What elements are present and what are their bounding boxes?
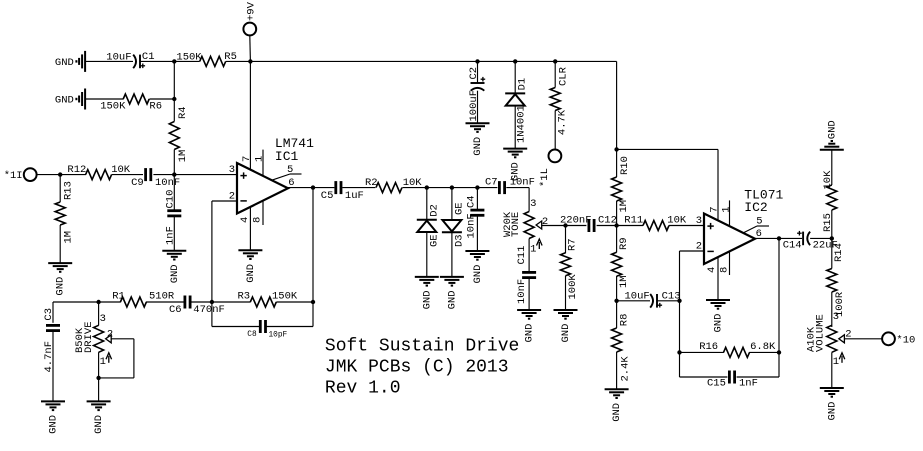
node C12/R10/R9/R11 junction: [614, 223, 618, 227]
resistor R3 150K: [238, 291, 298, 307]
svg-text:10K: 10K: [667, 215, 687, 227]
svg-text:150K: 150K: [176, 51, 202, 63]
ground GND (VOLUME): [820, 388, 844, 421]
ground GND (D1): [503, 149, 527, 182]
svg-text:C4: C4: [465, 195, 477, 208]
svg-text:TONE: TONE: [510, 212, 522, 237]
wire D3 to GND: [451, 232, 453, 277]
svg-text:2: 2: [542, 216, 548, 228]
wire node to R14: [831, 238, 833, 268]
svg-text:5: 5: [756, 215, 762, 227]
wire node to R4: [173, 99, 175, 122]
svg-text:150K: 150K: [100, 101, 126, 113]
svg-text:1: 1: [254, 156, 266, 162]
svg-text:R1: R1: [112, 291, 125, 303]
svg-text:4: 4: [706, 267, 718, 273]
svg-text:10uF: 10uF: [106, 51, 131, 63]
resistor R6 150K: [100, 94, 162, 113]
svg-text:IC1: IC1: [275, 149, 299, 164]
ground GND (C3): [41, 401, 65, 434]
svg-text:GND: GND: [93, 415, 105, 434]
svg-text:7: 7: [241, 156, 253, 162]
svg-text:C6: C6: [169, 304, 182, 316]
svg-text:GND: GND: [245, 264, 257, 283]
pin 5 IC2 stub: [743, 215, 769, 233]
svg-text:470nF: 470nF: [193, 304, 225, 316]
svg-text:R6: R6: [149, 100, 162, 112]
svg-text:3: 3: [696, 215, 702, 227]
wire C15 bottom left: [680, 376, 728, 378]
wire wiper loop down: [133, 339, 135, 378]
wire output down to R16: [778, 238, 780, 352]
svg-text:GND: GND: [472, 265, 484, 284]
wire node to R12: [60, 174, 86, 176]
svg-text:10uF: 10uF: [625, 290, 650, 302]
wire C7 to corner: [506, 187, 529, 189]
wire wiper loop right: [111, 338, 134, 340]
wire rail corner down: [616, 61, 618, 149]
svg-text:R14: R14: [833, 243, 845, 262]
svg-text:100uF: 100uF: [468, 90, 480, 122]
wire node to R16: [680, 351, 724, 353]
wire R11 to IC2 pin3: [669, 225, 704, 227]
wire CLR to terminal: [554, 111, 556, 150]
wire C13 node down to R16: [679, 301, 681, 353]
node D1 junction: [513, 59, 517, 63]
svg-text:*1L: *1L: [539, 168, 551, 187]
node C9/R4/C10/pin3 junction: [172, 172, 176, 176]
wire node to C10: [173, 175, 175, 211]
svg-text:GND: GND: [560, 324, 572, 343]
svg-text:4.7K: 4.7K: [556, 109, 568, 135]
wire +9V rail: [250, 60, 616, 62]
svg-text:510R: 510R: [149, 291, 175, 303]
capacitor C14 22uF: [783, 231, 838, 252]
svg-text:D3: D3: [453, 234, 465, 247]
resistor R4 1M: [169, 106, 189, 162]
svg-text:R4: R4: [177, 106, 189, 119]
wire pot to GND: [831, 352, 833, 388]
svg-text:R9: R9: [618, 237, 630, 250]
resistor R10 1M: [612, 156, 632, 212]
wire C15 left leg: [679, 352, 681, 377]
wire corner down to C3: [52, 302, 54, 323]
svg-text:R13: R13: [63, 181, 75, 200]
wire pot wiper to node: [542, 225, 566, 227]
wire D1 to GND: [514, 106, 516, 149]
ground GND (R6 left): [55, 89, 85, 110]
wire R7 to GND: [565, 276, 567, 310]
wire terminal to node: [37, 174, 61, 176]
svg-text:*1I: *1I: [4, 170, 23, 182]
wire node to R13: [59, 175, 61, 202]
svg-text:GND: GND: [472, 137, 484, 156]
wire node to C12: [566, 225, 587, 227]
svg-text:C15: C15: [707, 378, 726, 390]
wire IC2 pin2: [680, 250, 705, 252]
svg-text:2.4K: 2.4K: [620, 356, 632, 382]
node IC2 output junction: [777, 236, 781, 240]
node wiper/R7/C12 junction: [563, 223, 567, 227]
wire C8 bottom right: [266, 326, 314, 328]
capacitor C9 10nF: [131, 168, 180, 189]
ground GND (D2): [415, 277, 439, 310]
capacitor C2 100uF: [468, 67, 485, 122]
node R16 right junction: [777, 350, 781, 354]
pin 1 IC1 stub: [254, 150, 266, 176]
svg-text:R3: R3: [238, 291, 251, 303]
svg-text:C8: C8: [247, 331, 257, 339]
svg-text:GND: GND: [713, 314, 725, 333]
wire C8 right leg: [312, 302, 314, 327]
wire R6 to node: [149, 98, 174, 100]
capacitor C12 220nF: [560, 215, 617, 232]
wire R10 to C12 node: [616, 201, 618, 226]
svg-text:R11: R11: [624, 215, 643, 227]
svg-text:8: 8: [252, 217, 264, 223]
svg-text:GND: GND: [55, 95, 74, 107]
svg-text:*10: *10: [896, 334, 915, 346]
node CLR junction: [553, 59, 557, 63]
capacitor C8 10pF: [247, 320, 287, 340]
wire R4 to input node: [173, 150, 175, 175]
svg-text:C11: C11: [516, 246, 528, 265]
svg-text:1: 1: [720, 206, 732, 212]
wire node to R7: [565, 226, 567, 254]
capacitor C4 10nF: [465, 195, 484, 238]
resistor R16 6.8K: [699, 341, 776, 358]
capacitor C11 10nF: [516, 246, 536, 304]
ground GND (IC1): [238, 250, 262, 282]
svg-text:5: 5: [287, 164, 293, 176]
wire node to C13: [617, 300, 650, 302]
ground GND (C2): [466, 123, 490, 156]
wire node to R5: [174, 60, 199, 62]
resistor R1 510R: [112, 291, 175, 307]
node input/R13 junction: [58, 172, 62, 176]
wire R13 to GND: [59, 225, 61, 263]
capacitor C5 1uF: [321, 181, 364, 202]
diode D1 1N4001: [505, 78, 529, 143]
wire pin2 down to feedback: [211, 201, 213, 302]
svg-text:1: 1: [530, 244, 536, 256]
diode D2 GE: [417, 204, 441, 247]
svg-text:GE: GE: [453, 202, 465, 215]
svg-text:R10: R10: [619, 156, 631, 175]
svg-text:DRIVE: DRIVE: [83, 321, 95, 353]
ground GND (C10): [162, 251, 186, 283]
pin 5 IC1 stub: [272, 164, 302, 180]
svg-text:3: 3: [833, 311, 839, 323]
svg-text:+9V: +9V: [245, 1, 257, 21]
terminal *10 output: [882, 332, 915, 346]
svg-text:R8: R8: [618, 314, 630, 327]
wire rail node to R10: [616, 149, 618, 177]
wire node to R3: [212, 301, 251, 303]
wire C1 to node: [140, 60, 174, 62]
wire node to R1: [99, 301, 121, 303]
wire C3 to GND: [52, 331, 54, 402]
svg-text:10K: 10K: [822, 170, 834, 190]
svg-text:Soft Sustain Drive: Soft Sustain Drive: [325, 336, 519, 356]
ground GND (C1 left): [55, 51, 85, 72]
wire R15 to node: [831, 210, 833, 238]
wire rail to CLR: [554, 61, 556, 87]
ground GND (DRIVE): [87, 401, 111, 434]
svg-text:C2: C2: [468, 67, 480, 80]
capacitor C13 10uF: [625, 290, 681, 307]
resistor R7 100K: [561, 238, 579, 299]
ground GND (R7): [554, 310, 578, 343]
resistor R12 10K: [67, 164, 130, 180]
capacitor C6 470nF: [169, 296, 225, 317]
wire pot to GND: [98, 378, 100, 402]
svg-text:3: 3: [530, 198, 536, 210]
ground GND (C4): [465, 251, 489, 284]
svg-text:4: 4: [239, 217, 251, 223]
svg-text:1M: 1M: [618, 275, 630, 288]
wire rail to D1: [514, 61, 516, 93]
resistor R11 10K: [624, 215, 687, 231]
svg-text:R16: R16: [699, 341, 718, 353]
node R6/R4 junction: [172, 97, 176, 101]
ground GND (C11): [517, 310, 541, 343]
svg-text:10nF: 10nF: [155, 177, 180, 189]
capacitor C10 1nF: [164, 190, 181, 245]
svg-text:10nF: 10nF: [510, 176, 535, 188]
svg-text:R2: R2: [365, 177, 378, 189]
potentiometer VOLUME A10K: [805, 311, 851, 368]
node R3/C8/output junction: [311, 300, 315, 304]
wire IC1 output: [288, 187, 334, 189]
wire R1 to C6: [146, 301, 185, 303]
wire node to C4: [476, 188, 478, 211]
terminal *1I input: [4, 168, 37, 182]
wire C9 to pin3 node: [153, 174, 237, 176]
wire GND to R6: [85, 98, 123, 100]
node D2 junction: [425, 185, 429, 189]
node R10 top junction: [614, 147, 618, 151]
svg-text:Rev 1.0: Rev 1.0: [325, 378, 401, 398]
svg-text:GND: GND: [48, 415, 60, 434]
node C6/R3/pin2 junction: [210, 300, 214, 304]
node +9V rail junction: [248, 59, 252, 63]
pin 4 IC2 V-: [706, 257, 718, 300]
svg-text:C12: C12: [598, 215, 617, 227]
svg-text:D1: D1: [517, 78, 529, 91]
svg-text:GND: GND: [169, 264, 181, 283]
ground GND (R15 top): [820, 120, 844, 149]
wire R12 to C9: [112, 174, 143, 176]
wire C6 to node: [190, 301, 212, 303]
svg-text:10pF: 10pF: [269, 332, 288, 340]
wire C3 corner to node: [53, 301, 99, 303]
node C13/pin2/feedback junction: [677, 299, 681, 303]
svg-text:GND: GND: [55, 277, 67, 296]
wire node to R11: [617, 225, 643, 227]
node R16 left junction: [677, 350, 681, 354]
wire R8 to GND: [616, 352, 618, 389]
wire C15 bottom right: [737, 376, 779, 378]
power terminal +9V: [243, 1, 257, 35]
svg-text:100K: 100K: [567, 274, 579, 300]
node DRIVE top junction: [96, 300, 100, 304]
node C4 junction: [475, 185, 479, 189]
wire R5 to 9V node: [226, 60, 251, 62]
wire node to IC2 pin7: [617, 148, 718, 150]
terminal *1L: [539, 150, 561, 188]
node C14/R15/R14 junction: [830, 236, 834, 240]
ground GND (IC2): [706, 300, 730, 333]
wire R8 top: [616, 301, 618, 328]
svg-text:C9: C9: [131, 177, 144, 189]
wire wiper loop bottom: [99, 377, 134, 379]
capacitor C3 4.7nF: [43, 308, 60, 373]
svg-text:C7: C7: [485, 176, 498, 188]
svg-text:3: 3: [100, 313, 106, 325]
resistor R8 2.4K: [612, 314, 632, 382]
potentiometer DRIVE B50K: [74, 313, 113, 368]
svg-text:R7: R7: [566, 238, 578, 251]
diode D3 GE: [442, 202, 466, 247]
wire C8 bottom left: [212, 326, 260, 328]
svg-text:GND: GND: [524, 324, 536, 343]
svg-text:3: 3: [229, 164, 235, 176]
svg-text:IC2: IC2: [744, 200, 767, 215]
wire R9 to C13 node: [616, 276, 618, 301]
resistor CLR 4.7K: [550, 66, 570, 135]
svg-text:1M: 1M: [63, 231, 75, 244]
svg-text:JMK PCBs (C) 2013: JMK PCBs (C) 2013: [325, 357, 509, 377]
svg-text:150K: 150K: [272, 291, 298, 303]
node C2 junction: [475, 59, 479, 63]
svg-text:C3: C3: [43, 308, 55, 321]
svg-text:1nF: 1nF: [739, 378, 758, 390]
title text: [325, 336, 519, 398]
svg-text:10nF: 10nF: [516, 279, 528, 304]
svg-text:1: 1: [833, 356, 839, 368]
wire rail to C2: [477, 61, 479, 83]
svg-text:CLR: CLR: [558, 66, 570, 86]
svg-text:GND: GND: [446, 290, 458, 309]
svg-text:220nF: 220nF: [560, 215, 592, 227]
node C1/R5/R4 junction: [172, 59, 176, 63]
svg-text:7: 7: [708, 206, 720, 212]
wire R14 to pot: [831, 292, 833, 327]
ground GND (R13): [48, 263, 72, 296]
svg-text:6.8K: 6.8K: [750, 341, 776, 353]
wire C5 to R2: [342, 187, 375, 189]
resistor R2 10K: [365, 177, 422, 193]
ground GND (R8): [605, 389, 629, 422]
resistor R14 100R: [827, 243, 846, 317]
potentiometer TONE W20K: [502, 198, 548, 256]
svg-text:C14: C14: [783, 240, 802, 252]
svg-text:1N4001: 1N4001: [515, 105, 527, 143]
pin 8 IC1 stub: [252, 200, 264, 225]
wire C8 left leg: [211, 302, 213, 327]
pin 1 IC2 stub: [720, 200, 732, 226]
wire pin2 down to C13 node: [679, 251, 681, 301]
wire C2 to GND: [477, 91, 479, 124]
node R9/C13/R8 junction: [614, 299, 618, 303]
svg-text:10nF: 10nF: [465, 213, 477, 238]
pin 4 IC1 V-: [239, 207, 251, 250]
svg-text:R12: R12: [67, 164, 86, 176]
pin 7 IC2 V+: [708, 149, 720, 220]
svg-text:GND: GND: [421, 290, 433, 309]
svg-text:GND: GND: [826, 120, 838, 139]
wire output down to R3 node: [312, 188, 314, 302]
wire GND to C1: [85, 60, 133, 62]
resistor R13 1M: [55, 181, 75, 243]
node IC1 output junction: [311, 185, 315, 189]
wire wiper to terminal: [844, 338, 882, 340]
svg-text:1uF: 1uF: [345, 190, 364, 202]
wire C15 right leg: [778, 352, 780, 377]
wire node to pot pin3: [98, 302, 100, 326]
svg-text:D2: D2: [428, 204, 440, 217]
wire C10 to GND: [173, 216, 175, 251]
node D3 junction: [450, 185, 454, 189]
resistor R9 1M: [612, 237, 631, 288]
pin 7 IC1 V+: [241, 61, 253, 169]
svg-text:GND: GND: [611, 403, 623, 422]
svg-text:GND: GND: [55, 57, 74, 69]
svg-text:8: 8: [718, 267, 730, 273]
wire C11 to GND: [528, 278, 530, 310]
wire D2 to GND: [426, 232, 428, 277]
wire node to D3: [451, 188, 453, 220]
wire IC1 pin2: [212, 200, 237, 202]
svg-text:C5: C5: [321, 190, 334, 202]
svg-text:VOLUME: VOLUME: [815, 314, 827, 352]
wire pot pin1: [98, 352, 100, 378]
svg-text:1M: 1M: [177, 150, 189, 163]
op-amp U IC2 TL071: [704, 188, 784, 265]
svg-text:1M: 1M: [618, 200, 630, 213]
wire C14 to node: [810, 237, 832, 239]
pin 8 IC2 stub: [718, 251, 730, 275]
wire C12 to node: [597, 225, 617, 227]
wire pot bottom to C11: [528, 239, 530, 273]
wire rail down to R6 node: [173, 61, 175, 99]
wire node to D2: [426, 188, 428, 220]
svg-text:GND: GND: [826, 402, 838, 421]
capacitor C1 10uF: [106, 51, 154, 68]
wire node to R9: [616, 226, 618, 253]
node pot pin1 junction: [96, 376, 100, 380]
wire IC2 output: [755, 237, 802, 239]
wire corner down to pot pin3: [528, 188, 530, 212]
wire R3 to node: [276, 301, 313, 303]
wire GND to R15: [831, 150, 833, 185]
wire C13 to node: [657, 300, 680, 302]
resistor R15 10K: [822, 170, 837, 232]
wire C4 to GND: [476, 215, 478, 251]
wire 9V terminal drop: [249, 36, 252, 62]
op-amp U IC1 LM741: [237, 136, 314, 213]
ground GND (D3): [440, 277, 464, 310]
capacitor C7 10nF: [485, 176, 535, 194]
capacitor C15 1nF: [707, 371, 758, 390]
wire R16 to node: [749, 351, 779, 353]
resistor R5 150K: [176, 51, 237, 67]
svg-text:GE: GE: [428, 234, 440, 247]
svg-text:1: 1: [100, 356, 106, 368]
wire R2 to diode nodes: [402, 187, 497, 189]
